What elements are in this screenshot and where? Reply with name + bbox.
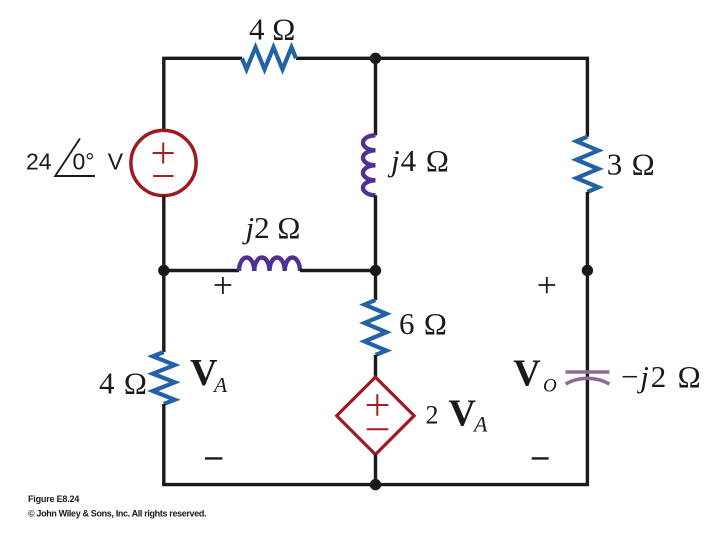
wire top-right corner segment [296, 58, 587, 136]
svg-text:© John Wiley & Sons, Inc. All: © John Wiley & Sons, Inc. All rights res… [28, 509, 206, 519]
node top middle [370, 53, 381, 64]
node mid right [582, 265, 593, 276]
node mid left [158, 265, 169, 276]
diamond minus [367, 428, 389, 430]
minus mark VO [532, 457, 549, 459]
svg-text:A: A [472, 412, 488, 437]
inductor j4 [363, 135, 376, 195]
svg-text:V: V [513, 353, 541, 395]
wire middle vertical top [374, 58, 377, 135]
svg-text:j2 Ω: j2 Ω [242, 210, 301, 245]
svg-text:0°: 0° [73, 148, 95, 174]
resistor 3ohm [576, 137, 598, 192]
wire right vertical [586, 192, 589, 485]
wire left bottom segment [162, 404, 165, 485]
svg-text:V: V [449, 393, 477, 435]
dependent source diamond [337, 377, 414, 454]
wire middle vertical mid [374, 195, 377, 300]
svg-text:2: 2 [426, 401, 439, 430]
minus mark VA [205, 457, 223, 459]
svg-text:−j2 Ω: −j2 Ω [621, 359, 702, 394]
resistor 6ohm [365, 300, 387, 355]
resistor 4ohm left [153, 352, 175, 404]
wire middle horizontal right part [300, 269, 376, 272]
svg-text:j4 Ω: j4 Ω [387, 143, 450, 178]
resistor 4ohm top [242, 47, 296, 69]
wire middle horizontal left part [164, 269, 239, 272]
voltage source U1 circle [131, 130, 196, 195]
svg-text:A: A [212, 373, 228, 397]
voltage source plus [153, 143, 174, 164]
svg-text:V: V [108, 148, 124, 174]
voltage source minus [153, 175, 173, 177]
svg-text:24: 24 [26, 148, 52, 174]
plus mark VA [215, 277, 232, 294]
inductor j2 [239, 258, 300, 272]
svg-text:O: O [543, 376, 557, 397]
wire top-left corner segment [164, 58, 242, 130]
svg-text:Figure E8.24: Figure E8.24 [28, 494, 79, 504]
capacitor top plate [566, 370, 610, 374]
angle symbol [55, 139, 95, 177]
svg-text:4 Ω: 4 Ω [99, 366, 148, 401]
wire diamond to bottom [374, 455, 377, 485]
wire bottom rail [162, 483, 589, 486]
node mid middle [370, 265, 381, 276]
diamond plus [367, 394, 389, 416]
svg-text:3 Ω: 3 Ω [607, 147, 656, 182]
capacitor bottom plate (curved) [566, 378, 610, 384]
svg-text:6 Ω: 6 Ω [399, 306, 448, 341]
node bottom middle [370, 479, 381, 490]
source value label 24 angle 0 V [26, 148, 124, 174]
wire left middle segment [162, 196, 165, 352]
wire resistor to diamond [374, 355, 377, 377]
svg-text:4 Ω: 4 Ω [249, 12, 295, 47]
plus mark VO [539, 277, 556, 293]
